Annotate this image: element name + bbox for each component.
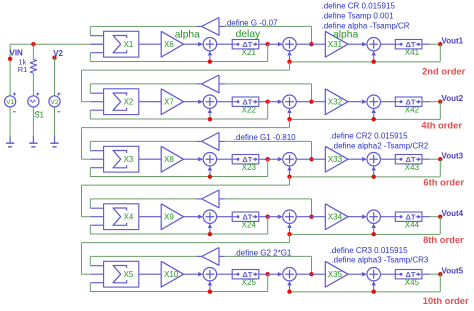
wire X41-out	[422, 43, 430, 45]
summer row3 C	[367, 153, 380, 166]
wire X34-sumC	[348, 216, 365, 218]
svg-text:X41: X41	[405, 48, 420, 57]
node sumC bottom row3	[372, 175, 376, 179]
svg-text:X23: X23	[242, 163, 257, 172]
source S1	[28, 92, 39, 111]
wire sumB bottom arrow row4	[289, 228, 291, 234]
delay X42	[395, 97, 422, 106]
svg-text:.define G1 -0.810: .define G1 -0.810	[234, 133, 296, 142]
node sumB-out row2	[309, 100, 313, 104]
node sumB bottom row2	[287, 117, 291, 121]
wire wrap row2	[289, 119, 291, 127]
svg-text:V2: V2	[51, 99, 59, 106]
wire V2-gnd	[54, 107, 56, 137]
node sumB-out row5	[309, 272, 313, 276]
svg-text:.define Tsamp 0.001: .define Tsamp 0.001	[322, 12, 394, 21]
summer row2 A	[203, 95, 216, 108]
svg-text:S1: S1	[34, 111, 44, 120]
svg-text:6th order: 6th order	[423, 176, 464, 187]
wire sumA bottom arrow row4	[209, 228, 211, 234]
wire sumB-node	[296, 216, 311, 218]
node Vout1	[438, 42, 442, 46]
wire Vout4-down	[439, 217, 441, 235]
svg-text:X33: X33	[328, 155, 343, 164]
svg-text:X31: X31	[328, 40, 343, 49]
wire V1-gnd	[9, 107, 11, 137]
wire sumB-node	[296, 101, 311, 103]
wire sumC bottom arrow row4	[373, 228, 375, 234]
integrator block X2	[104, 89, 139, 115]
amp X34	[325, 204, 348, 230]
svg-text:.define alpha -Tsamp/CR: .define alpha -Tsamp/CR	[322, 22, 410, 31]
svg-text:X25: X25	[242, 278, 257, 287]
svg-text:V2: V2	[53, 49, 63, 58]
wire sumB bottom arrow row5	[289, 286, 291, 292]
wire node-X31	[312, 43, 326, 45]
svg-text:Vout4: Vout4	[442, 209, 464, 218]
wire X3 top pin	[90, 150, 103, 152]
svg-text:Vout5: Vout5	[442, 267, 464, 276]
wire sumA-X25	[217, 273, 233, 275]
wire sumA bottom arrow row3	[209, 171, 211, 177]
wire sumB-node	[296, 43, 311, 45]
ground V1	[6, 136, 14, 147]
wire X1 top pin	[90, 35, 103, 37]
node sumB bottom row1	[287, 60, 291, 64]
wire X5 top pin	[90, 265, 103, 267]
wire X43-out	[422, 158, 430, 160]
summer row4 A	[203, 210, 216, 223]
wire G-rail row2	[90, 83, 196, 85]
wire X5-X10	[139, 273, 161, 275]
wire sumB bottom arrow row1	[289, 56, 291, 62]
node sumC bottom row1	[372, 60, 376, 64]
amp X9	[161, 204, 183, 230]
amp X6	[161, 31, 183, 57]
delay X21	[232, 40, 259, 49]
svg-text:delay: delay	[236, 29, 261, 40]
svg-text:.define alpha2 -Tsamp/CR2: .define alpha2 -Tsamp/CR2	[331, 141, 428, 150]
wire bottom rail-B row5	[290, 291, 441, 293]
wire input-wrap row4	[81, 185, 83, 217]
node sumA bottom row2	[208, 117, 212, 121]
summer row5 B	[283, 268, 296, 281]
node X23-out	[266, 157, 270, 161]
node sumB bottom row5	[287, 290, 291, 294]
amp X32	[325, 89, 348, 115]
node Vout2	[438, 100, 442, 104]
wire sumB bottom arrow row3	[289, 171, 291, 177]
wire sumB-node	[296, 158, 311, 160]
summer row5 A	[203, 268, 216, 281]
svg-text:10th order: 10th order	[423, 295, 469, 306]
wire sumA bottom arrow row5	[209, 286, 211, 292]
svg-text:X44: X44	[405, 221, 420, 230]
wire sumA-X21	[217, 43, 233, 45]
wire X1-X6	[139, 43, 161, 45]
amp G row1	[202, 18, 219, 36]
wire X2 bottom pin	[90, 109, 103, 111]
node sumA bottom row3	[208, 175, 212, 179]
wire X45-out	[422, 273, 430, 275]
node sumA bottom row4	[208, 232, 212, 236]
wire node-X34	[312, 216, 326, 218]
wire X4 mid pin	[90, 216, 103, 218]
wire X42-out	[422, 101, 430, 103]
integrator block X1	[104, 31, 139, 57]
wire G-input row5	[225, 255, 312, 257]
wire X4 top pin	[90, 207, 103, 209]
svg-text:X21: X21	[242, 48, 257, 57]
summer row3 A	[203, 153, 216, 166]
svg-text:4th order: 4th order	[421, 120, 462, 131]
summer row3 B	[283, 153, 296, 166]
svg-text:X43: X43	[405, 163, 420, 172]
node X25-out	[266, 272, 270, 276]
amp X31	[325, 31, 348, 57]
wire sumA-X24	[217, 216, 233, 218]
wire X2 mid pin	[90, 101, 103, 103]
svg-text:X3: X3	[124, 155, 134, 164]
svg-text:.define CR2 0.015915: .define CR2 0.015915	[330, 132, 408, 141]
summer row4 C	[367, 210, 380, 223]
wire bottom rail-B row3	[290, 176, 441, 178]
summer row5 C	[367, 268, 380, 281]
wire X7-sum	[184, 101, 202, 103]
summer row1 C	[367, 38, 380, 51]
svg-text:.define alpha3 -Tsamp/CR3: .define alpha3 -Tsamp/CR3	[331, 255, 428, 264]
node sumC bottom row4	[372, 232, 376, 236]
wire X21-out	[259, 43, 268, 45]
node sumB bottom row4	[287, 232, 291, 236]
svg-text:X1: X1	[124, 40, 134, 49]
wire X1 mid pin	[90, 43, 103, 45]
wire S1-gnd	[32, 107, 34, 137]
svg-text:.define CR3 0.015915: .define CR3 0.015915	[330, 246, 408, 255]
wire node-X32	[312, 101, 326, 103]
wire sumC bottom arrow row3	[373, 171, 375, 177]
wire X3 mid pin	[90, 158, 103, 160]
svg-text:alpha: alpha	[175, 30, 200, 41]
svg-text:X7: X7	[164, 97, 174, 106]
source V2	[49, 92, 61, 111]
wire input-wrap row2	[81, 70, 83, 102]
svg-text:Vout1: Vout1	[442, 37, 464, 46]
node X24-out	[266, 215, 270, 219]
wire G-input row1	[225, 25, 312, 27]
wire sumC bottom arrow row5	[373, 286, 375, 292]
wire sumC bottom arrow row1	[373, 56, 375, 62]
summer row1 A	[203, 38, 216, 51]
wire G-rail row1	[90, 25, 196, 27]
wire Vout2-down	[439, 102, 441, 120]
wire X5 mid pin	[90, 273, 103, 275]
wire X32-sumC	[348, 101, 365, 103]
wire wrap row1	[289, 62, 291, 70]
svg-text:.define G -0.07: .define G -0.07	[225, 18, 278, 27]
svg-text:X10: X10	[164, 270, 179, 279]
ground V2	[50, 136, 58, 147]
wire Vout1-down	[439, 44, 441, 62]
delay X24	[232, 212, 259, 221]
summer row1 B	[283, 38, 296, 51]
wire sumC-X41	[380, 43, 395, 45]
wire X8-sum	[184, 158, 202, 160]
wire bottom rail-A row1	[90, 61, 267, 63]
wire sumB-node	[296, 273, 311, 275]
wire bottom rail-A row3	[90, 176, 267, 178]
wire X35-sumC	[348, 273, 365, 275]
svg-text:X6: X6	[164, 40, 174, 49]
delay X23	[232, 155, 259, 164]
svg-text:.define CR 0.015915: .define CR 0.015915	[322, 1, 396, 10]
svg-text:Vout3: Vout3	[442, 152, 464, 161]
wire X3-X8	[139, 158, 161, 160]
wire G-rail row3	[90, 140, 196, 142]
integrator block X3	[104, 146, 139, 172]
svg-text:X35: X35	[328, 270, 343, 279]
svg-text:X22: X22	[242, 106, 257, 115]
amp X33	[325, 146, 348, 172]
wire X3 bottom pin	[90, 167, 103, 169]
summer row2 B	[283, 95, 296, 108]
wire sumC-X45	[380, 273, 395, 275]
svg-text:2nd order: 2nd order	[422, 66, 466, 77]
wire R1-top	[32, 44, 34, 59]
svg-text:V1: V1	[6, 99, 14, 106]
node sumA bottom row5	[208, 290, 212, 294]
wire input-wrap row5	[81, 243, 83, 275]
wire X44-out	[422, 216, 430, 218]
svg-text:X45: X45	[405, 278, 420, 287]
wire G-input row4	[225, 198, 312, 200]
integrator block X5	[104, 261, 139, 287]
wire X22-out	[259, 101, 268, 103]
wire bottom rail-A row2	[90, 118, 267, 120]
amp G row2	[202, 75, 219, 93]
node sumB bottom row3	[287, 175, 291, 179]
svg-text:VIN: VIN	[10, 49, 24, 58]
wire sumA-X23	[217, 158, 233, 160]
wire VIN rail	[10, 43, 103, 45]
source V1	[5, 92, 17, 111]
delay X22	[232, 97, 259, 106]
wire sumC-X43	[380, 158, 395, 160]
node VIN	[8, 57, 12, 61]
wire to sumB	[268, 273, 281, 275]
wire X31-sumC	[348, 43, 365, 45]
delay X43	[395, 155, 422, 164]
wire X25-feedback	[267, 274, 269, 292]
svg-text:X32: X32	[328, 97, 343, 106]
delay X45	[395, 270, 422, 279]
delay X41	[395, 40, 422, 49]
wire sumA bottom arrow row1	[209, 56, 211, 62]
node V2	[52, 56, 56, 60]
svg-text:8th order: 8th order	[423, 234, 464, 245]
wire wrap row4	[289, 234, 291, 242]
summer row2 C	[367, 95, 380, 108]
svg-text:X42: X42	[405, 106, 420, 115]
svg-text:.define G2 2*G1: .define G2 2*G1	[234, 249, 292, 258]
wire node-X35	[312, 273, 326, 275]
node sumB-out row4	[309, 215, 313, 219]
svg-text:X5: X5	[124, 270, 134, 279]
delay X25	[232, 270, 259, 279]
wire G-rail row5	[90, 255, 196, 257]
delay X44	[395, 212, 422, 221]
node sumB-out row1	[309, 42, 313, 46]
wire X6-sum	[184, 43, 202, 45]
wire R1-S1	[32, 73, 34, 96]
wire input-wrap row3	[81, 128, 83, 160]
wire X5 bottom pin	[90, 282, 103, 284]
amp G row4	[202, 190, 219, 208]
wire bottom rail-A row4	[90, 233, 267, 235]
wire X24-out	[259, 216, 268, 218]
wire bottom rail-A row5	[90, 291, 267, 293]
wire X23-feedback	[267, 159, 269, 177]
wire wrap row3	[289, 177, 291, 185]
svg-text:X8: X8	[164, 155, 174, 164]
wire node-X33	[312, 158, 326, 160]
wire G-rail row4	[90, 198, 196, 200]
wire to sumB	[268, 43, 281, 45]
wire X2 top pin	[90, 92, 103, 94]
node sumC bottom row2	[372, 117, 376, 121]
wire bottom rail-B row2	[290, 118, 441, 120]
wire to sumB	[268, 216, 281, 218]
integrator block X4	[104, 204, 139, 230]
wire G-input row2	[225, 83, 312, 85]
amp X10	[161, 261, 183, 287]
svg-text:alpha: alpha	[333, 30, 358, 41]
wire X24-feedback	[267, 217, 269, 235]
wire G-input row3	[225, 140, 312, 142]
node X22-out	[266, 100, 270, 104]
amp G row5	[202, 248, 219, 266]
node junction R1-top	[31, 42, 35, 46]
wire sumC bottom arrow row2	[373, 113, 375, 119]
amp X7	[161, 89, 183, 115]
svg-text:Vout2: Vout2	[442, 94, 464, 103]
wire bottom rail-B row4	[290, 233, 441, 235]
node Vout5	[438, 272, 442, 276]
wire X23-out	[259, 158, 268, 160]
amp X8	[161, 146, 183, 172]
wire V1 branch	[9, 44, 11, 96]
summer row4 B	[283, 210, 296, 223]
wire Vout5-down	[439, 274, 441, 292]
wire to sumB	[268, 158, 281, 160]
ground S1	[29, 136, 37, 147]
node sumC bottom row5	[372, 290, 376, 294]
wire sumB bottom arrow row2	[289, 113, 291, 119]
svg-text:X34: X34	[328, 212, 343, 221]
svg-text:X4: X4	[124, 212, 134, 221]
wire X33-sumC	[348, 158, 365, 160]
wire sumC-X44	[380, 216, 395, 218]
amp X35	[325, 261, 348, 287]
wire X4 bottom pin	[90, 224, 103, 226]
wire X9-sum	[184, 216, 202, 218]
wire X21-feedback	[267, 44, 269, 62]
wire sumA-X22	[217, 101, 233, 103]
wire to sumB	[268, 101, 281, 103]
node Vout4	[438, 215, 442, 219]
svg-text:X24: X24	[242, 221, 257, 230]
wire X25-out	[259, 273, 268, 275]
wire X2-X7	[139, 101, 161, 103]
node X21-out	[266, 42, 270, 46]
amp G row3	[202, 133, 219, 151]
node sumB-out row3	[309, 157, 313, 161]
wire X10-sum	[184, 273, 202, 275]
resistor R1	[30, 59, 36, 73]
node Vout3	[438, 157, 442, 161]
wire sumA bottom arrow row2	[209, 113, 211, 119]
wire X22-feedback	[267, 102, 269, 120]
svg-text:X9: X9	[164, 212, 174, 221]
wire X1 bottom pin	[90, 52, 103, 54]
wire Vout3-down	[439, 159, 441, 177]
svg-text:X2: X2	[124, 97, 134, 106]
wire X4-X9	[139, 216, 161, 218]
wire bottom rail-B row1	[290, 61, 441, 63]
wire sumC-X42	[380, 101, 395, 103]
node sumA bottom row1	[208, 60, 212, 64]
wire V2 branch	[54, 58, 56, 96]
svg-text:R1: R1	[18, 65, 28, 74]
